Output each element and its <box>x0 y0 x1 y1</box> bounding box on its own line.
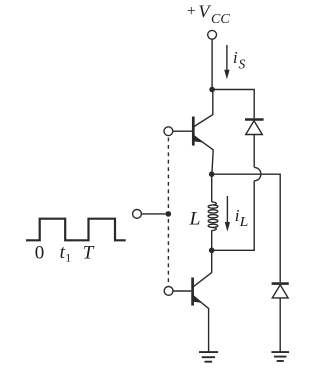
transistor Q1 base wire <box>173 130 192 132</box>
wire VCC to node A <box>211 39 213 89</box>
current arrow iL <box>225 196 230 232</box>
input terminal (middle) <box>133 210 142 219</box>
square wave input signal <box>26 219 126 241</box>
transistor Q1 emitter arrowhead <box>193 136 201 142</box>
ground (under Q2 emitter) <box>199 352 218 362</box>
node C junction dot (inductor bottom) <box>209 248 215 254</box>
label iL <box>235 206 249 229</box>
svg-text:L: L <box>238 214 248 229</box>
svg-text:CC: CC <box>211 12 230 27</box>
current arrow iS <box>224 45 229 79</box>
terminal VCC <box>208 30 217 39</box>
label t1 <box>60 242 72 265</box>
inductor L <box>208 174 218 250</box>
input terminal (top) <box>164 127 173 136</box>
wire node A to diode D1 top <box>212 90 254 119</box>
node A junction dot <box>209 87 215 93</box>
transistor Q1 base bar <box>192 117 195 146</box>
wire middle terminal to node B <box>141 213 168 215</box>
transistor Q1 emitter <box>194 136 213 174</box>
transistor Q2 base wire <box>173 290 191 292</box>
wire hop bottom to corner, then left to node C <box>212 181 255 251</box>
transistor Q2 collector <box>193 250 212 286</box>
node D junction dot (inductor top) <box>209 171 215 177</box>
diode D2 (cathode up) <box>272 284 289 298</box>
wire D1 anode down to hop <box>253 135 255 168</box>
svg-text:1: 1 <box>65 251 71 265</box>
wire D2 anode to ground <box>279 298 281 352</box>
wire hop (D1 branch jumps over horizontal wire) <box>254 167 261 180</box>
ground (under D2) <box>271 352 289 361</box>
svg-text:L: L <box>188 209 200 230</box>
wire node D to right, down to diode D2 <box>212 174 281 282</box>
input terminal (bottom) <box>164 287 173 296</box>
label +VCC <box>187 1 231 26</box>
label iS <box>233 48 246 72</box>
svg-text:S: S <box>239 56 246 71</box>
transistor Q2 base bar <box>191 278 194 306</box>
transistor Q2 emitter <box>193 296 208 352</box>
svg-text:T: T <box>83 242 95 263</box>
transistor Q1 collector <box>194 92 213 127</box>
svg-text:i: i <box>233 48 238 67</box>
svg-text:+: + <box>187 3 196 20</box>
svg-text:0: 0 <box>35 243 45 264</box>
node B junction dot on dashed line <box>166 211 172 217</box>
transistor Q2 emitter arrowhead <box>193 296 201 302</box>
dashed line joining inputs <box>167 138 169 286</box>
diode D1 (cathode up) <box>245 120 264 135</box>
